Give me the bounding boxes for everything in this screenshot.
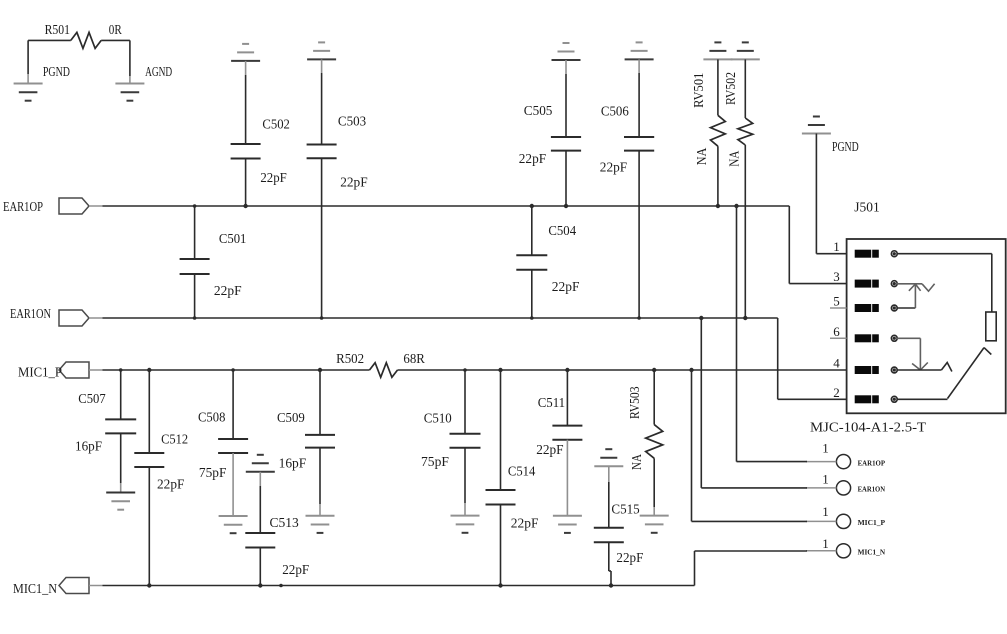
svg-text:22pF: 22pF xyxy=(600,161,628,176)
svg-text:RV503: RV503 xyxy=(628,387,643,420)
svg-text:C507: C507 xyxy=(78,392,105,407)
svg-text:2: 2 xyxy=(833,385,840,400)
svg-text:22pF: 22pF xyxy=(157,478,185,493)
svg-text:3: 3 xyxy=(833,269,840,284)
svg-text:PGND: PGND xyxy=(43,65,70,80)
svg-text:22pF: 22pF xyxy=(340,176,368,191)
svg-text:RV502: RV502 xyxy=(724,72,739,105)
svg-text:22pF: 22pF xyxy=(552,280,580,295)
svg-text:1: 1 xyxy=(822,536,829,551)
svg-text:1: 1 xyxy=(822,472,829,487)
svg-text:5: 5 xyxy=(833,294,840,309)
svg-text:C510: C510 xyxy=(424,412,452,427)
svg-text:16pF: 16pF xyxy=(279,457,307,472)
svg-text:J501: J501 xyxy=(854,201,879,216)
svg-text:C505: C505 xyxy=(524,104,553,119)
svg-text:MIC1_P: MIC1_P xyxy=(18,366,62,381)
svg-text:NA: NA xyxy=(695,147,710,165)
svg-text:C506: C506 xyxy=(601,104,629,119)
svg-text:C502: C502 xyxy=(262,118,290,133)
svg-text:22pF: 22pF xyxy=(260,171,287,186)
svg-text:22pF: 22pF xyxy=(536,443,564,458)
svg-text:C511: C511 xyxy=(538,396,565,411)
svg-text:1: 1 xyxy=(822,441,829,456)
svg-text:4: 4 xyxy=(833,356,840,371)
svg-text:C513: C513 xyxy=(270,516,299,531)
svg-text:PGND: PGND xyxy=(832,140,859,155)
svg-text:C509: C509 xyxy=(277,411,305,426)
svg-text:C514: C514 xyxy=(508,465,535,480)
svg-text:EAR1ON: EAR1ON xyxy=(10,307,51,322)
svg-text:EAR1OP: EAR1OP xyxy=(3,200,43,215)
svg-text:MIC1_N: MIC1_N xyxy=(13,582,57,597)
svg-text:C508: C508 xyxy=(198,411,225,426)
svg-text:R502: R502 xyxy=(336,352,364,367)
svg-text:0R: 0R xyxy=(109,23,123,38)
svg-text:MJC-104-A1-2.5-T: MJC-104-A1-2.5-T xyxy=(810,421,926,436)
svg-text:16pF: 16pF xyxy=(75,440,102,455)
svg-text:EAR1OP: EAR1OP xyxy=(858,458,886,467)
svg-text:NA: NA xyxy=(630,453,645,470)
svg-text:1: 1 xyxy=(822,504,829,519)
svg-text:22pF: 22pF xyxy=(282,563,309,578)
svg-text:C512: C512 xyxy=(161,433,188,448)
svg-text:22pF: 22pF xyxy=(519,152,546,167)
svg-text:R501: R501 xyxy=(45,23,70,38)
svg-text:C501: C501 xyxy=(219,232,247,247)
svg-text:AGND: AGND xyxy=(145,65,172,80)
svg-text:22pF: 22pF xyxy=(511,517,539,532)
svg-text:22pF: 22pF xyxy=(616,551,643,566)
svg-text:C515: C515 xyxy=(611,503,639,518)
svg-text:6: 6 xyxy=(833,324,840,339)
svg-text:RV501: RV501 xyxy=(692,73,707,108)
svg-text:1: 1 xyxy=(833,239,840,254)
svg-text:75pF: 75pF xyxy=(421,455,449,470)
svg-text:C503: C503 xyxy=(338,115,366,130)
svg-text:75pF: 75pF xyxy=(199,466,227,481)
svg-text:MIC1_N: MIC1_N xyxy=(858,548,886,557)
svg-text:NA: NA xyxy=(728,150,743,167)
svg-text:EAR1ON: EAR1ON xyxy=(858,485,886,494)
svg-text:22pF: 22pF xyxy=(214,284,242,299)
svg-text:68R: 68R xyxy=(403,352,425,367)
svg-text:MIC1_P: MIC1_P xyxy=(858,518,886,527)
svg-text:C504: C504 xyxy=(548,224,576,239)
